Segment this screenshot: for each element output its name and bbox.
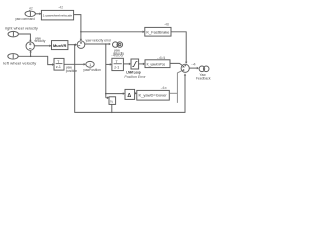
annotation callout mark under 42 bbox=[29, 10, 30, 11]
svg-text:-4: -4 bbox=[191, 63, 196, 67]
svg-text:left wheel velocity: left wheel velocity bbox=[3, 61, 36, 65]
block integrator1 T/(z-1) bbox=[54, 58, 64, 70]
wire K_yawD out, up to sum3 lower-left bbox=[169, 92, 177, 94]
wire sum2 out to viewer, junction down bbox=[85, 43, 109, 45]
wire sum1 to Mux bbox=[34, 45, 49, 47]
svg-text:MuxVR: MuxVR bbox=[53, 44, 67, 48]
block K_yawKnPos bbox=[145, 60, 170, 68]
wire branch down into sum2 top bbox=[80, 32, 82, 39]
block MuxVR bbox=[52, 41, 68, 50]
inport icon right wheel velocity bbox=[8, 31, 18, 37]
svg-text:1:yawwheelvelscale: 1:yawwheelvelscale bbox=[43, 13, 73, 17]
svg-text:velocity: velocity bbox=[34, 39, 45, 43]
svg-text:Δ: Δ bbox=[127, 93, 131, 99]
svg-text:right wheel velocity: right wheel velocity bbox=[5, 27, 38, 31]
wire rate block to K_yawD bbox=[134, 92, 136, 94]
wire small block bottom stub bbox=[111, 104, 113, 112]
block K_yawD=Gover bbox=[137, 90, 170, 100]
svg-text:K_yawKnPos: K_yawKnPos bbox=[147, 62, 166, 66]
wire arrow into small block bbox=[106, 97, 107, 99]
rate block bbox=[125, 89, 135, 99]
inport icon left wheel velocity bbox=[8, 54, 18, 60]
svg-text:z-1: z-1 bbox=[114, 65, 119, 69]
wire branch to K_FastBrake bbox=[81, 31, 143, 33]
svg-text:position: position bbox=[66, 69, 78, 73]
junction dots bbox=[30, 31, 113, 113]
wire yaw command to scale block bbox=[35, 13, 39, 15]
saturation block bbox=[131, 59, 139, 69]
wire right wheel to sum1 top bbox=[18, 34, 30, 40]
wire Mux to sum2 with feedback junction bbox=[68, 44, 75, 46]
wire branch into rate block bbox=[106, 93, 123, 95]
block integrator2 T/(z-1) bbox=[112, 58, 124, 70]
svg-text:yaw velocity error: yaw velocity error bbox=[86, 39, 113, 43]
sum S1 bbox=[26, 42, 34, 50]
svg-text:-48: -48 bbox=[164, 22, 169, 26]
wire saturation to K_yaw bbox=[139, 63, 144, 65]
outport icon Yaw Feedback bbox=[199, 66, 209, 72]
wire integrator1 to oval outport bbox=[64, 63, 84, 65]
svg-text:K_FastBrake: K_FastBrake bbox=[146, 30, 169, 34]
block 1:yawwheelvelscale bbox=[41, 10, 73, 20]
svg-text:-4x: -4x bbox=[161, 86, 168, 90]
wire sum3 out to outport bbox=[189, 67, 197, 69]
svg-text:yawPosition: yawPosition bbox=[83, 68, 101, 72]
wire left wheel, branch up to sum1 bottom, corner into integrator1 bbox=[18, 56, 52, 64]
wire K_FastBrake to sum3 top bbox=[171, 32, 186, 62]
block K_FastBrake bbox=[145, 27, 171, 36]
small block on feedback tap bbox=[109, 97, 116, 105]
viewer icon yaw velocity bbox=[113, 42, 123, 47]
svg-text:-4806: -4806 bbox=[111, 53, 123, 57]
wire scale block out, corner down to junction bbox=[74, 15, 81, 32]
wire branch into integrator2 bbox=[106, 63, 110, 65]
wire error branch down bbox=[105, 44, 107, 98]
inport icon yaw command bbox=[25, 11, 35, 16]
oval outport 1 (yawPosition) bbox=[86, 61, 94, 67]
svg-text:-42: -42 bbox=[58, 6, 63, 10]
svg-text:Feedback: Feedback bbox=[196, 76, 211, 80]
svg-text:yaw command: yaw command bbox=[15, 17, 35, 21]
sum S3 bbox=[181, 64, 189, 72]
svg-text:1: 1 bbox=[89, 63, 91, 67]
wire integrator2 to saturation bbox=[123, 63, 129, 65]
sum S2 bbox=[77, 41, 85, 49]
wire K_yaw to sum3 bbox=[170, 63, 182, 65]
svg-text:Position Error: Position Error bbox=[124, 75, 146, 79]
feedback wire: branch down, across bottom, up into sum3 bottom bbox=[75, 45, 185, 113]
svg-text:¼: ¼ bbox=[110, 99, 113, 103]
svg-text:-44: -44 bbox=[157, 56, 166, 60]
svg-text:K_yawD=Gover: K_yawD=Gover bbox=[139, 94, 168, 98]
svg-text:42: 42 bbox=[29, 7, 33, 11]
svg-text:z-1: z-1 bbox=[56, 65, 61, 69]
